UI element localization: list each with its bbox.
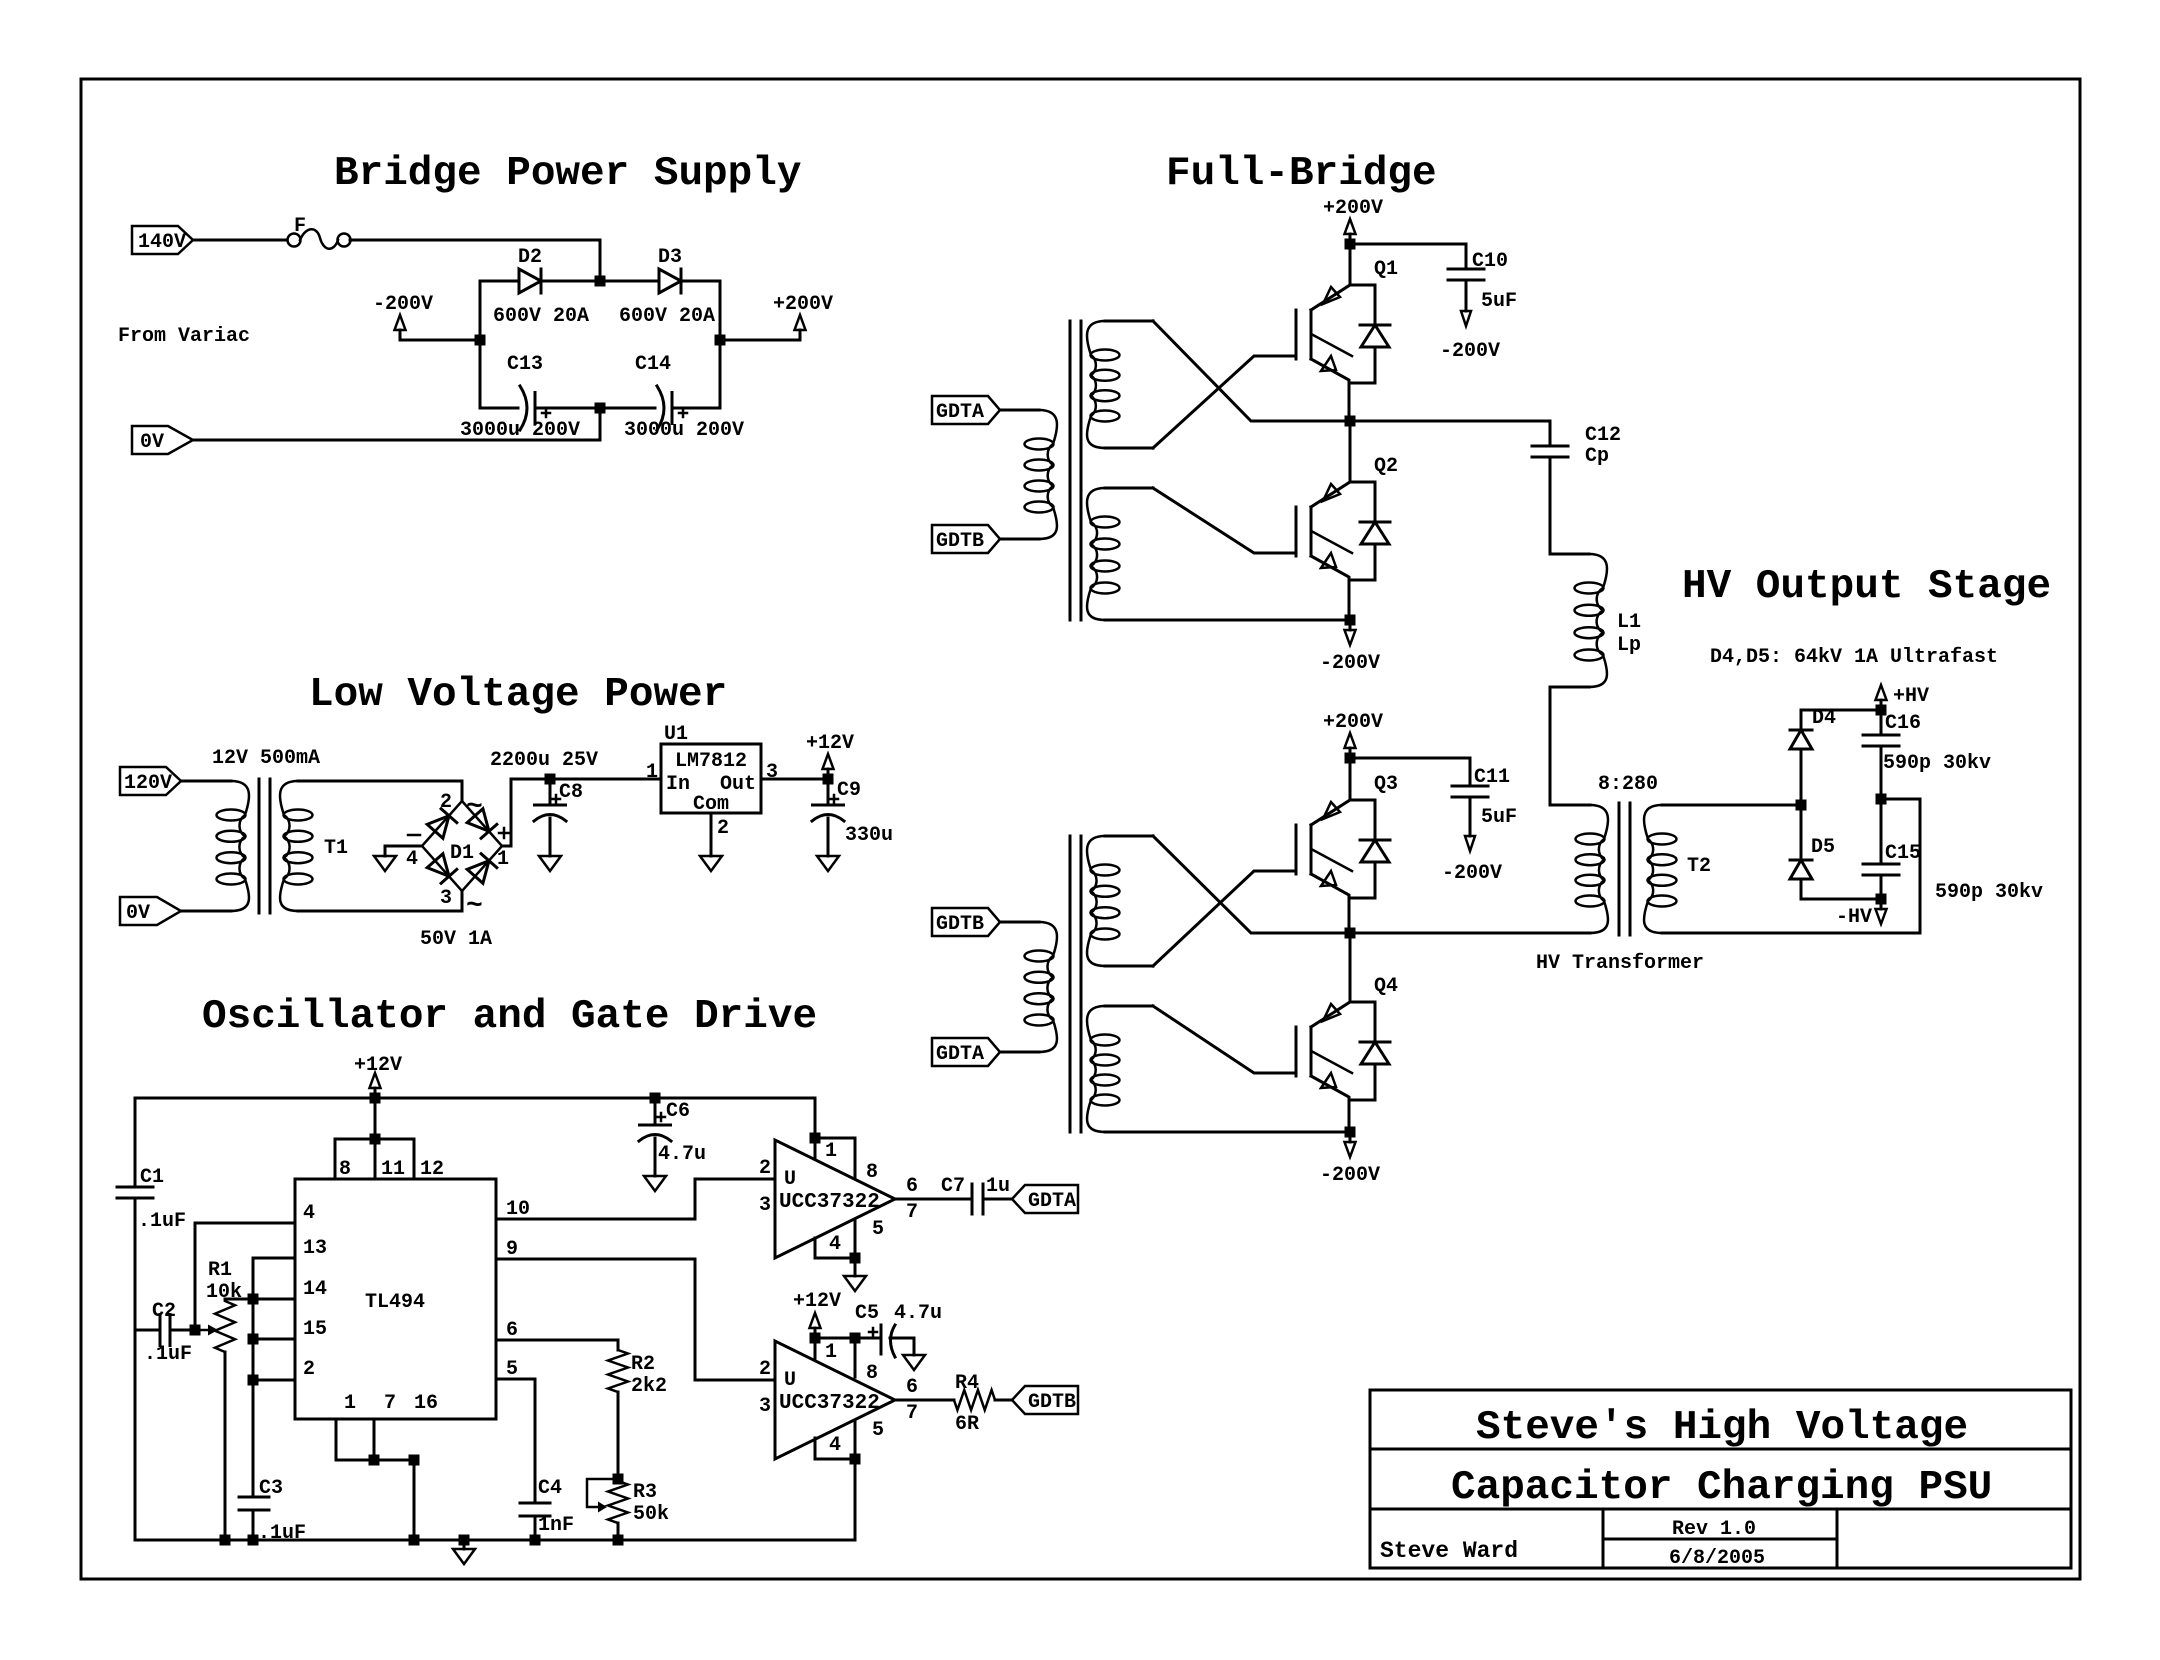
- junction 0V caps: [595, 403, 606, 414]
- wire pin13 bus: [253, 1258, 295, 1497]
- ground C5: [903, 1355, 925, 1370]
- resistor R1: [206, 1259, 242, 1352]
- svg-text:UCC37322: UCC37322: [779, 1191, 880, 1214]
- port tag GDTB top: [932, 525, 1000, 553]
- svg-text:C3: C3: [259, 1477, 283, 1500]
- svg-text:4: 4: [829, 1434, 841, 1457]
- wire D1 bottom stub: [461, 891, 464, 911]
- junction rail R3: [613, 1535, 624, 1546]
- svg-text:C12: C12: [1585, 424, 1621, 447]
- wire secB bot to -200V rail: [1105, 619, 1350, 622]
- diode D5: [1790, 805, 1881, 899]
- wire pin9 net: [496, 1259, 775, 1380]
- wire R3 down: [617, 1523, 620, 1540]
- svg-text:330u: 330u: [845, 824, 893, 847]
- power flag +200V Q1: [1323, 197, 1383, 244]
- wire +200V to C10: [1350, 243, 1466, 246]
- wire pin14 to R1: [225, 1298, 295, 1301]
- svg-text:+12V: +12V: [354, 1054, 402, 1077]
- wire UCC1 pin5 stub: [854, 1219, 857, 1258]
- wire left rail down: [135, 1330, 225, 1540]
- wire pin11 stub: [374, 1139, 377, 1179]
- junction +HV: [1876, 705, 1887, 716]
- power flag +12V UCC2: [793, 1290, 841, 1338]
- capacitor C3: [239, 1477, 306, 1545]
- svg-text:Steve's High Voltage: Steve's High Voltage: [1476, 1405, 1968, 1451]
- wire UCC2 pin1 stub: [814, 1338, 817, 1358]
- power flag +12V LV: [806, 732, 854, 779]
- svg-text:HV Output Stage: HV Output Stage: [1682, 564, 2051, 610]
- wire secB top to Q2 gate: [1153, 488, 1296, 553]
- wire Q2 emitter: [1348, 580, 1351, 620]
- transformer GDT1 secondary B: [1087, 488, 1153, 620]
- svg-text:Q3: Q3: [1374, 773, 1398, 796]
- resistor R3: [608, 1481, 669, 1526]
- diode D3: [658, 246, 682, 293]
- svg-text:C8: C8: [559, 781, 583, 804]
- svg-text:+12V: +12V: [806, 732, 854, 755]
- svg-text:F: F: [294, 215, 306, 238]
- junction bus p14: [248, 1294, 259, 1305]
- svg-text:1: 1: [497, 848, 509, 871]
- wire D2 to D3: [541, 280, 659, 283]
- svg-text:5uF: 5uF: [1481, 290, 1517, 313]
- svg-text:C1: C1: [140, 1166, 164, 1189]
- svg-text:-200V: -200V: [1320, 652, 1380, 675]
- wire sec2B bot to -200V rail B: [1105, 1131, 1350, 1134]
- junction +12V out: [823, 774, 834, 785]
- svg-text:C15: C15: [1885, 842, 1921, 865]
- junction pin bus: [370, 1134, 381, 1145]
- svg-text:D4,D5: 64kV 1A Ultrafast: D4,D5: 64kV 1A Ultrafast: [1710, 646, 1998, 669]
- svg-text:GDTA: GDTA: [936, 1043, 984, 1066]
- wire UCC2 pin18: [815, 1337, 881, 1340]
- wire diode row right: [681, 280, 720, 283]
- svg-text:LM7812: LM7812: [675, 750, 747, 773]
- svg-text:3: 3: [766, 761, 778, 784]
- wire R1 down: [224, 1352, 227, 1540]
- ground osc rail: [453, 1540, 475, 1564]
- power flag -200V Q2: [1320, 620, 1380, 675]
- plus mark D1: [499, 828, 509, 838]
- wire +12V top rail: [135, 1097, 815, 1100]
- wire Q2 collector: [1349, 421, 1352, 482]
- port tag GDTA out: [1012, 1185, 1078, 1213]
- transistor Q3: [1255, 773, 1398, 898]
- capacitor C11: [1452, 758, 1517, 851]
- svg-text:C5: C5: [855, 1302, 879, 1325]
- wire pin4 net: [195, 1223, 295, 1330]
- wire R2 to R3: [617, 1392, 620, 1481]
- junction rail C4: [530, 1535, 541, 1546]
- diode D2: [518, 246, 542, 293]
- svg-text:Lp: Lp: [1617, 634, 1641, 657]
- svg-text:6: 6: [906, 1376, 918, 1399]
- junction -HV: [1876, 894, 1887, 905]
- transformer T2 primary: [1550, 805, 1608, 933]
- capacitor C15: [1863, 799, 1921, 899]
- svg-text:4: 4: [303, 1202, 315, 1225]
- svg-text:1: 1: [344, 1392, 356, 1415]
- svg-text:Q1: Q1: [1374, 258, 1398, 281]
- svg-text:U: U: [784, 1168, 796, 1191]
- svg-text:-HV: -HV: [1836, 906, 1872, 929]
- capacitor C8: [534, 779, 583, 856]
- svg-text:+12V: +12V: [793, 1290, 841, 1313]
- svg-text:D3: D3: [658, 246, 682, 269]
- svg-text:D2: D2: [518, 246, 542, 269]
- svg-text:3: 3: [759, 1395, 771, 1418]
- inductor L1: [1550, 554, 1641, 687]
- svg-text:GDTB: GDTB: [936, 530, 984, 553]
- wire 140V to fuse: [193, 239, 287, 242]
- svg-text:.1uF: .1uF: [138, 1210, 186, 1233]
- wire D1 plus up: [502, 779, 661, 846]
- junction UCC2 pin8: [850, 1333, 861, 1344]
- svg-text:L1: L1: [1617, 611, 1641, 634]
- svg-text:50k: 50k: [633, 1503, 669, 1526]
- resistor R2: [608, 1350, 667, 1398]
- wire T2 sec top: [1662, 804, 1801, 807]
- junction +12V vert: [370, 1093, 381, 1104]
- svg-text:U1: U1: [664, 723, 688, 746]
- svg-text:Rev 1.0: Rev 1.0: [1672, 1518, 1756, 1541]
- wire cap row right: [672, 407, 720, 410]
- junction cap mid: [1876, 794, 1887, 805]
- svg-text:3000u 200V: 3000u 200V: [624, 419, 744, 442]
- capacitor C9: [812, 779, 861, 856]
- wire Q3 collector: [1349, 758, 1352, 800]
- wire pins 8 11 12 bus: [335, 1139, 414, 1179]
- svg-text:Q4: Q4: [1374, 975, 1398, 998]
- port tag 0V bridge: [132, 426, 193, 454]
- ground C8: [539, 856, 561, 871]
- svg-text:Steve Ward: Steve Ward: [1380, 1538, 1518, 1564]
- port tag GDTB bottom: [932, 908, 1000, 936]
- svg-text:C10: C10: [1472, 250, 1508, 273]
- svg-text:600V 20A: 600V 20A: [619, 305, 715, 328]
- capacitor C7: [941, 1175, 1012, 1214]
- diode D4: [1790, 707, 1881, 805]
- wire R4 to tag: [995, 1399, 1012, 1402]
- wire UCC2 gnd bus: [815, 1438, 855, 1459]
- svg-text:1: 1: [825, 1140, 837, 1163]
- wire T1 to D1 top: [461, 781, 464, 801]
- regulator U1 LM7812: [661, 723, 761, 816]
- bridge rectifier D1: [422, 801, 502, 891]
- svg-text:GDTA: GDTA: [1028, 1190, 1076, 1213]
- wire sec2A bot to Q3 gate: [1153, 871, 1296, 966]
- junction C6: [650, 1093, 661, 1104]
- svg-text:10k: 10k: [206, 1281, 242, 1304]
- svg-text:8: 8: [866, 1161, 878, 1184]
- wire node to +200V: [720, 339, 800, 342]
- svg-text:2: 2: [303, 1358, 315, 1381]
- wire phase B to T2: [1350, 932, 1590, 935]
- wire secA top to phase: [1153, 321, 1550, 421]
- svg-text:7: 7: [906, 1402, 918, 1425]
- junction rail gnd: [459, 1535, 470, 1546]
- wire vcc drop: [374, 1098, 377, 1139]
- junction R2 R3: [613, 1474, 624, 1485]
- svg-text:+HV: +HV: [1893, 685, 1929, 708]
- wire L1 to T2: [1549, 687, 1552, 805]
- wire pin2: [253, 1379, 295, 1382]
- port tag GDTB out: [1012, 1386, 1078, 1414]
- wire pin5 net: [496, 1379, 535, 1503]
- capacitor C10: [1448, 244, 1517, 326]
- power flag +200V Q3: [1323, 711, 1383, 758]
- svg-text:Cp: Cp: [1585, 445, 1609, 468]
- svg-text:+200V: +200V: [773, 293, 833, 316]
- junction UCC1 vcc: [810, 1133, 821, 1144]
- wire UCC2 pin8 stub: [854, 1338, 857, 1377]
- svg-text:GDTB: GDTB: [936, 913, 984, 936]
- wire C12 drop: [1549, 421, 1552, 446]
- svg-text:In: In: [666, 773, 690, 796]
- wire 0V to caps: [193, 408, 600, 440]
- svg-text:15: 15: [303, 1318, 327, 1341]
- power flag -200V Q4: [1320, 1132, 1380, 1187]
- junction phase B: [1345, 928, 1356, 939]
- svg-text:C9: C9: [837, 779, 861, 802]
- wire cap mid link: [1881, 798, 1920, 801]
- junction +200V Q3: [1345, 753, 1356, 764]
- svg-text:7: 7: [384, 1392, 396, 1415]
- junction -200V top: [1345, 615, 1356, 626]
- junction -200V bottom: [1345, 1127, 1356, 1138]
- wire secA bot to Q1 gate: [1153, 356, 1296, 448]
- junction UCC2 gnd: [850, 1454, 861, 1465]
- svg-text:-200V: -200V: [1442, 862, 1502, 885]
- transformer T2 secondary: [1644, 805, 1711, 933]
- capacitor C4: [520, 1477, 574, 1540]
- svg-text:5: 5: [872, 1419, 884, 1442]
- wire U1 com: [710, 813, 713, 856]
- svg-text:C7: C7: [941, 1175, 965, 1198]
- power flag -200V left: [373, 293, 433, 340]
- wire +200V to C11: [1350, 757, 1470, 760]
- fuse F: [288, 215, 351, 249]
- svg-text:HV Transformer: HV Transformer: [1536, 952, 1704, 975]
- wire sec2A top to phase B: [1153, 836, 1350, 933]
- transformer GDT2 core: [1070, 836, 1081, 1132]
- junction C2 wiper: [190, 1325, 201, 1336]
- wire pin15: [253, 1338, 295, 1341]
- wiper arrow R1: [195, 1325, 218, 1336]
- junction D2 D3: [595, 276, 606, 287]
- wire pin10 net: [496, 1179, 775, 1219]
- svg-text:0V: 0V: [140, 431, 164, 454]
- svg-text:+200V: +200V: [1323, 197, 1383, 220]
- svg-text:D4: D4: [1812, 707, 1836, 730]
- port tag 120V: [120, 767, 181, 795]
- capacitor C1: [117, 1098, 186, 1330]
- svg-text:1: 1: [646, 761, 658, 784]
- wiper R3: [587, 1479, 618, 1507]
- svg-text:TL494: TL494: [365, 1291, 425, 1314]
- wire Q4 collector: [1349, 933, 1352, 1002]
- driver U2 UCC37322 upper: [775, 1140, 895, 1258]
- transformer GDT2 secondary A: [1087, 836, 1153, 966]
- junction phase A: [1345, 416, 1356, 427]
- port tag GDTA bottom: [932, 1038, 1000, 1066]
- svg-text:4.7u: 4.7u: [894, 1302, 942, 1325]
- svg-text:C2: C2: [152, 1300, 176, 1323]
- capacitor C2: [135, 1300, 195, 1366]
- svg-text:C11: C11: [1474, 766, 1510, 789]
- svg-text:C4: C4: [538, 1477, 562, 1500]
- junction bus p2: [248, 1375, 259, 1386]
- ground UCC1: [844, 1258, 866, 1291]
- transformer GDT1 secondary A: [1087, 321, 1153, 448]
- svg-text:-200V: -200V: [373, 293, 433, 316]
- svg-text:1nF: 1nF: [538, 1514, 574, 1537]
- junction C8: [545, 774, 556, 785]
- junction UCC2 vcc: [810, 1333, 821, 1344]
- svg-text:7: 7: [906, 1201, 918, 1224]
- transistor Q2: [1255, 455, 1398, 580]
- svg-text:2k2: 2k2: [631, 1375, 667, 1398]
- junction left rail: [475, 335, 486, 346]
- svg-text:.1uF: .1uF: [258, 1522, 306, 1545]
- power flag -HV: [1836, 899, 1887, 929]
- wire UCC1 gnd bus: [815, 1238, 855, 1258]
- svg-text:~: ~: [466, 891, 483, 922]
- svg-text:D1: D1: [450, 842, 474, 865]
- svg-text:2: 2: [717, 817, 729, 840]
- svg-text:+200V: +200V: [1323, 711, 1383, 734]
- svg-text:2: 2: [759, 1157, 771, 1180]
- wire sec2B top to Q4 gate: [1153, 1006, 1296, 1073]
- port tag 0V LV: [120, 897, 181, 925]
- wire C12 to L1: [1549, 457, 1552, 554]
- svg-text:1u: 1u: [986, 1175, 1010, 1198]
- svg-text:R3: R3: [633, 1481, 657, 1504]
- wire left rail: [479, 281, 482, 408]
- svg-text:8: 8: [339, 1158, 351, 1181]
- junction D4 D5: [1796, 800, 1807, 811]
- ic TL494: [295, 1179, 496, 1419]
- wire U1 out: [761, 778, 828, 781]
- wire right rail: [719, 281, 722, 408]
- svg-text:11: 11: [381, 1158, 405, 1181]
- svg-text:120V: 120V: [124, 772, 172, 795]
- svg-text:R2: R2: [631, 1353, 655, 1376]
- svg-text:T1: T1: [324, 837, 348, 860]
- svg-text:Bridge Power Supply: Bridge Power Supply: [334, 151, 801, 197]
- svg-text:R4: R4: [955, 1372, 979, 1395]
- wire -200V to node: [400, 339, 480, 342]
- svg-text:8: 8: [866, 1362, 878, 1385]
- wire UCC2 out: [895, 1399, 954, 1402]
- svg-text:140V: 140V: [138, 231, 186, 254]
- power flag +12V osc: [354, 1054, 402, 1098]
- transformer T2 core: [1619, 803, 1630, 935]
- capacitor C16: [1863, 710, 1921, 799]
- port tag GDTA top: [932, 396, 1000, 424]
- junction rail R1: [220, 1535, 231, 1546]
- wire pin6 net: [496, 1340, 618, 1350]
- svg-text:5: 5: [872, 1218, 884, 1241]
- svg-text:T2: T2: [1687, 855, 1711, 878]
- transformer T1 core: [259, 779, 270, 913]
- svg-text:1: 1: [825, 1341, 837, 1364]
- transformer GDT2 primary: [1000, 922, 1057, 1052]
- wire fuse to corner: [350, 240, 600, 281]
- svg-text:6R: 6R: [955, 1413, 979, 1436]
- svg-text:6: 6: [906, 1175, 918, 1198]
- svg-text:4: 4: [406, 848, 418, 871]
- wire C13 to C14: [535, 407, 655, 410]
- transformer T1 secondary: [280, 781, 462, 911]
- junction rail p16: [409, 1535, 420, 1546]
- svg-text:14: 14: [303, 1278, 327, 1301]
- svg-text:2: 2: [440, 791, 452, 814]
- svg-text:GDTA: GDTA: [936, 401, 984, 424]
- transistor Q1: [1255, 258, 1398, 383]
- svg-text:Full-Bridge: Full-Bridge: [1166, 151, 1437, 197]
- wire pins 1 7 16: [336, 1419, 414, 1540]
- svg-text:3: 3: [440, 887, 452, 910]
- wire bottom rail: [135, 1539, 855, 1542]
- svg-text:Low Voltage Power: Low Voltage Power: [309, 672, 727, 718]
- svg-text:GDTB: GDTB: [1028, 1391, 1076, 1414]
- wire diode row left: [480, 280, 519, 283]
- svg-text:Oscillator and Gate Drive: Oscillator and Gate Drive: [202, 994, 817, 1040]
- svg-text:-200V: -200V: [1440, 340, 1500, 363]
- transformer GDT1 core: [1070, 321, 1081, 620]
- junction p7 bus: [369, 1455, 380, 1466]
- wire UCC2 pin5 stub: [854, 1421, 857, 1459]
- svg-text:590p 30kv: 590p 30kv: [1883, 752, 1991, 775]
- svg-text:0V: 0V: [126, 902, 150, 925]
- svg-text:3: 3: [759, 1194, 771, 1217]
- wire Q1 emitter: [1348, 383, 1351, 421]
- capacitor C14: [635, 353, 687, 430]
- svg-text:12: 12: [420, 1158, 444, 1181]
- svg-text:13: 13: [303, 1237, 327, 1260]
- junction p16 bus: [409, 1455, 420, 1466]
- svg-text:600V 20A: 600V 20A: [493, 305, 589, 328]
- svg-text:16: 16: [414, 1392, 438, 1415]
- minus mark D1: [408, 834, 420, 837]
- svg-text:Capacitor Charging PSU: Capacitor Charging PSU: [1451, 1465, 1992, 1511]
- svg-text:50V 1A: 50V 1A: [420, 928, 492, 951]
- ground U1: [700, 856, 722, 871]
- svg-text:12V 500mA: 12V 500mA: [212, 747, 320, 770]
- power flag +HV: [1876, 685, 1930, 710]
- svg-text:8:280: 8:280: [1598, 773, 1658, 796]
- ground C9: [817, 856, 839, 871]
- svg-text:~: ~: [466, 792, 483, 823]
- wire T2 sec bottom: [1662, 799, 1920, 933]
- junction +200V Q1: [1345, 239, 1356, 250]
- svg-text:.1uF: .1uF: [144, 1343, 192, 1366]
- wire rail to UCC1: [814, 1098, 817, 1138]
- svg-text:U: U: [784, 1369, 796, 1392]
- wire UCC1 pin18: [815, 1138, 855, 1177]
- svg-text:2: 2: [759, 1358, 771, 1381]
- capacitor C6: [639, 1098, 706, 1176]
- wire pin7 stub: [373, 1419, 376, 1460]
- capacitor C12: [1532, 424, 1621, 468]
- wire Q3 emitter: [1348, 898, 1351, 933]
- wire UCC2 gnd down: [854, 1459, 857, 1540]
- svg-text:2200u 25V: 2200u 25V: [490, 749, 598, 772]
- ground C6: [644, 1176, 666, 1191]
- svg-text:C13: C13: [507, 353, 543, 376]
